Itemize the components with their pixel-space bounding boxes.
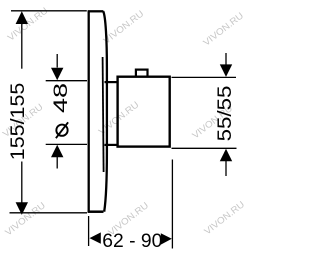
62-90 left extension line (88, 216, 90, 246)
55/55 bottom arrow (220, 149, 232, 162)
55/55 bottom extension line (172, 147, 237, 149)
dia48 bottom tick (46, 143, 87, 145)
dia48 top tick (46, 80, 87, 82)
55/55 top arrow (220, 64, 232, 77)
55/55 top extension line (172, 76, 237, 78)
155/155 dimension line lower (21, 162, 23, 204)
62-90 left arrow (90, 232, 101, 243)
dia48 bottom stub (56, 156, 58, 169)
stem bottom edge (105, 144, 118, 146)
handle tab button (136, 70, 148, 77)
155/155 dimension line upper (21, 23, 23, 69)
55/55 bottom stub (225, 161, 227, 176)
escutcheon plate front face line (88, 11, 90, 212)
155/155 top arrow (16, 11, 28, 24)
stem top edge (105, 81, 118, 83)
escutcheon plate bottom edge (88, 210, 104, 213)
155/155 bottom extension line (10, 212, 88, 214)
handle body (118, 77, 170, 147)
62-90 right extension line (171, 160, 173, 249)
escutcheon plate inner right edge (103, 57, 104, 172)
dia48 bottom arrow (51, 145, 63, 158)
escutcheon plate outer right profile (103, 11, 107, 211)
55/55 top stub (225, 53, 227, 65)
62-90 right arrow (161, 233, 172, 244)
155/155 top extension line (11, 10, 87, 12)
155/155 bottom arrow (16, 202, 28, 215)
svg-text:48: 48 (51, 83, 72, 113)
dia48 top stub (56, 54, 58, 68)
escutcheon plate top edge (88, 10, 104, 12)
dia48 label (56, 122, 68, 138)
dia48 top arrow (51, 68, 63, 81)
